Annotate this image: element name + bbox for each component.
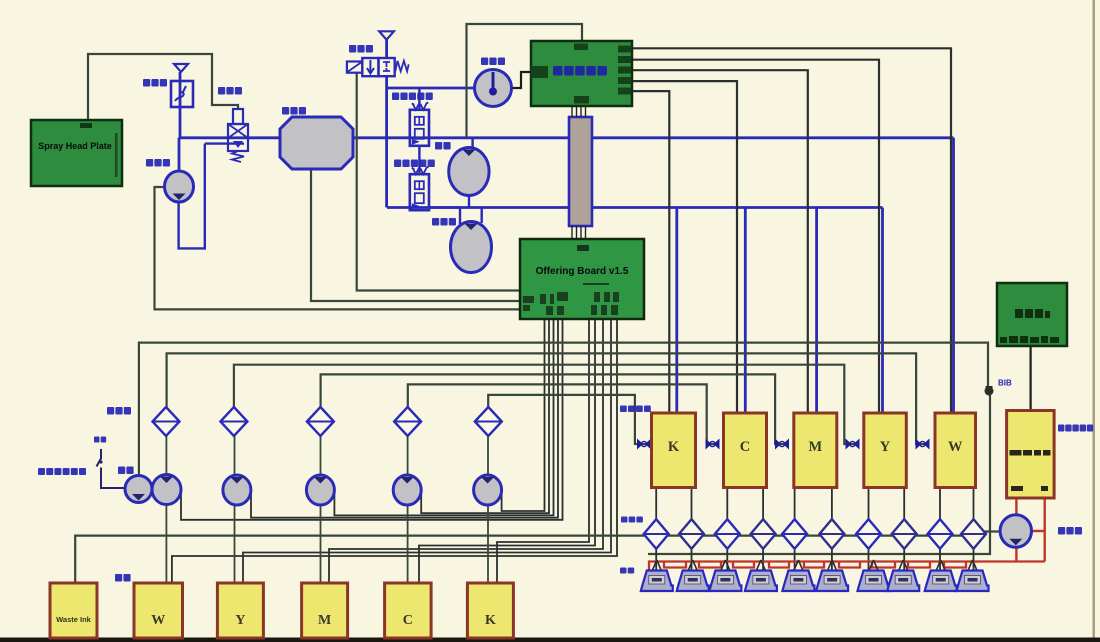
tank: secondary cartridge M [794,413,837,488]
label: recycle pump right [1058,527,1082,535]
tank: negative pressure bottle [280,117,353,169]
pump: Y ink pump [223,475,251,505]
wire: board to C tank [419,319,595,584]
wire: tank to damper [868,488,870,520]
wire: M channel supply drop [815,208,818,414]
wire: head ctrl M [632,70,808,413]
red wire: sensor board right [1043,498,1045,562]
tank: secondary cartridge W [935,413,976,488]
label: secondary cartridge [620,406,651,413]
wire: K channel supply drop [675,208,678,414]
wire: board to Y tank [243,319,611,584]
pump: white ink circulation pump [125,476,152,503]
damper: channel damper 5 [782,519,807,549]
wire: ink pump bottom stub [468,194,470,208]
tank: secondary cartridge K [652,413,696,488]
label: filter [107,407,131,415]
wire: head ctrl W [632,48,951,413]
connector: ink bag plug 3 [721,560,730,571]
tank: main ink cartridge C [385,583,432,638]
flow valve: W channel inlet [916,439,930,450]
wire: recycle pump top stub [481,208,483,224]
svg-text:Waste Ink: Waste Ink [56,615,92,624]
connector: ink bag plug 2 [688,560,697,571]
pump: recycle pump right [1000,515,1031,548]
pump: K ink pump [474,475,502,505]
svg-text:W: W [151,613,165,628]
connector: ink bag plug 7 [869,560,878,571]
label: electric 2-way valve [392,93,433,101]
wire: damper to bag connector [691,549,693,572]
wire: Y filter riser [234,365,858,444]
label: pressure regulator [143,79,167,87]
tank: main ink cartridge Y [217,583,263,638]
flow valve: M channel inlet [775,439,789,450]
wire: spray head plate loop to damper valve [88,54,238,120]
svg-text:K: K [485,613,496,628]
connector: ink bag plug 8 [899,560,908,571]
svg-text:C: C [740,439,750,455]
wire: damper to bag connector [868,549,870,572]
svg-text:C: C [403,613,413,628]
wire: damper to bag connector [655,549,657,572]
label: manual 2-way valve [394,160,435,168]
wire: tank to damper [831,488,833,520]
wire: white pump riser to BIB [139,343,988,477]
label: negative pressure bottle [282,107,306,115]
wire: damper drain [205,142,244,144]
damper: channel damper 8 [892,519,917,549]
wire: solenoid valve to offering board [357,73,520,291]
pump: vacuum pump [165,171,194,202]
wire: tank to damper [939,488,941,520]
board: Offering Board v1.5 [520,239,644,319]
valve: manual 2-way valve [410,167,429,211]
valve: pressure regulator [171,64,193,107]
damper: channel damper 3 [715,519,740,549]
pump: C ink pump [393,475,421,505]
wire: regulator to main line [179,72,182,138]
wire: manual valve to recycle pump [429,208,460,225]
wire: head board loop to ink pump [467,24,583,138]
tank: main ink cartridge M [302,583,348,638]
wire: damper to bag connector [726,549,728,572]
wire: tank to damper [762,488,764,520]
board: Spray Head Plate [31,120,122,186]
tank: secondary cartridge Y [864,413,907,488]
wire: board to pump M [334,319,553,516]
connector: ink bag plug 9 [936,560,945,571]
wire: board to K tank [497,319,589,584]
wire: head ctrl K [632,91,669,413]
label: 2-way valve [349,45,373,53]
wire: electric valve top stub [418,88,420,110]
wire: vacuum pump to offering board [155,187,521,309]
label: ink pump [435,142,451,150]
wire: W filter riser [167,353,929,444]
pump: W ink pump [152,475,181,505]
wire: BIB down to connector bus [648,395,990,554]
wire: tank to damper [655,488,657,520]
wire: electric to manual valve [418,146,420,174]
wire: pump to tank [234,504,236,584]
wire: gauge to head board [512,72,532,88]
svg-text:Y: Y [235,613,245,628]
wire: board to pump K [502,319,545,512]
wire: W channel supply drop [952,138,955,413]
ribbon cable [569,106,592,239]
wire: board to pump W [181,319,563,520]
svg-text:Offering Board v1.5: Offering Board v1.5 [536,266,629,277]
wire: main vacuum line y138 [179,136,954,139]
flow valve: C channel inlet [706,439,720,450]
wire: pump to tank [487,504,489,584]
wire: vacuum pump return U [179,144,205,249]
label: vacuum gauge [481,58,505,66]
board: ink recovery board (top right) [997,283,1067,346]
connector: ink bag plug 5 [794,560,803,571]
float switch: white cartridge level [97,449,126,488]
red wire: recycle pump link [1032,530,1045,532]
pump: ink pump [449,148,489,196]
filter: supply filter 5 [475,407,502,436]
filter: supply filter 4 [394,407,421,436]
wire: ink pump top stub [471,138,473,149]
wire: tank to damper [691,488,693,520]
filter: supply filter 2 [220,407,247,436]
red wire: connector bus [649,562,1045,571]
damper: channel damper 4 [751,519,776,549]
label: recycle pump left [432,218,456,226]
gauge: vacuum gauge [475,70,512,107]
bottom edge band [0,638,1100,642]
wire: board to pump Y [251,319,558,518]
wire: Y channel supply drop [881,208,884,414]
wire: valve bottom stub [385,77,388,89]
wire: damper to bag connector [831,549,833,572]
label: ink cartridge [115,574,131,582]
valve: electric 2-way valve [410,102,429,146]
wire: C channel supply drop [744,208,747,414]
flow valve: Y channel inlet [846,439,860,450]
wire: head ctrl Y [632,60,879,413]
wire: damper to bag connector [973,549,975,572]
wire: head ctrl C [632,81,737,413]
flow valve: K channel inlet [637,439,651,450]
tank: main ink cartridge K [467,583,513,638]
pump: recycle pump left [451,222,492,273]
filter: supply filter 3 [307,407,334,436]
damper: channel damper 1 [644,519,669,549]
label: white cartridge float [38,468,86,475]
red wire: sensor board left [1015,498,1017,562]
svg-text:M: M [318,613,331,628]
wire: damper to bag connector [903,549,905,572]
wire: recovery board to sensor board [1029,346,1031,411]
wire: tank to damper [973,488,975,520]
wire: filter to pump [234,436,236,476]
connector: ink bag plug 1 [652,560,661,571]
wire: pump to tank [407,504,409,584]
wire: line to vacuum gauge [387,87,474,90]
wire: tank to damper [903,488,905,520]
tank: main ink cartridge Waste Ink [50,583,97,638]
damper: channel damper 7 [856,519,881,549]
wire: M filter riser [321,374,788,444]
label: ink pump bottom [118,467,134,475]
svg-text:Y: Y [880,439,891,455]
wire: pump to tank [320,504,322,584]
valve: 2-way solenoid vent valve [347,31,409,76]
filter: supply filter 1 [153,407,180,436]
damper: channel damper 9 [928,519,953,549]
wire: damper to bag connector [762,549,764,572]
label: ink bag [620,568,634,574]
wire: damper to bag connector [794,549,796,572]
label: pressure sensor board [1058,425,1093,432]
svg-text:W: W [948,439,963,455]
wire: tank to damper [726,488,728,520]
wire: tank sensor to offering board [311,169,520,301]
wire: C filter riser [408,384,719,444]
label: level switch [94,437,106,443]
label: vacuum pump [146,159,170,167]
svg-text:M: M [808,439,822,455]
connector: ink bag plug 4 [756,560,765,571]
svg-text:BIB: BIB [998,379,1012,388]
label: damper valve [218,87,242,95]
board: negative pressure sensor board [1007,411,1055,499]
wire: board to M tank [329,319,603,584]
label: channel damper [621,517,643,523]
wire: main line to vacuum pump [178,138,181,172]
damper: channel damper 6 [819,519,844,549]
svg-text:K: K [668,439,680,455]
connector: ink bag plug 10 [968,560,977,571]
tank: secondary cartridge C [724,413,767,488]
wire: board to W tank [172,319,617,584]
board: spray head control board [531,41,632,106]
wire: ink return line y207 [387,206,883,209]
wire: filter to pump [407,436,409,476]
right edge line [1093,0,1096,642]
wire: filter to pump [165,436,167,476]
wire: K filter riser [488,395,648,444]
wire: waste tank to right recycle pump [75,532,1000,584]
tank: main ink cartridge W [134,583,183,638]
wire: pump to tank [165,504,167,584]
label: head control board text [553,66,607,76]
wire: filter to pump [487,436,489,476]
wire: vent funnel stem [385,40,388,58]
damper: channel damper 10 [961,519,986,549]
wire: board to pump C [421,319,549,514]
connector: BIB inline plug [985,386,994,396]
wire: valve to return line [385,88,388,208]
pump: M ink pump [306,475,334,505]
valve: damper/filter valve [228,109,248,162]
connector: ink bag plug 6 [828,560,837,571]
damper: channel damper 2 [679,519,704,549]
wire: filter to pump [320,436,322,476]
wire: tank to damper [794,488,796,520]
svg-text:Spray Head Plate: Spray Head Plate [38,141,112,151]
wire: damper to bag connector [939,549,941,572]
